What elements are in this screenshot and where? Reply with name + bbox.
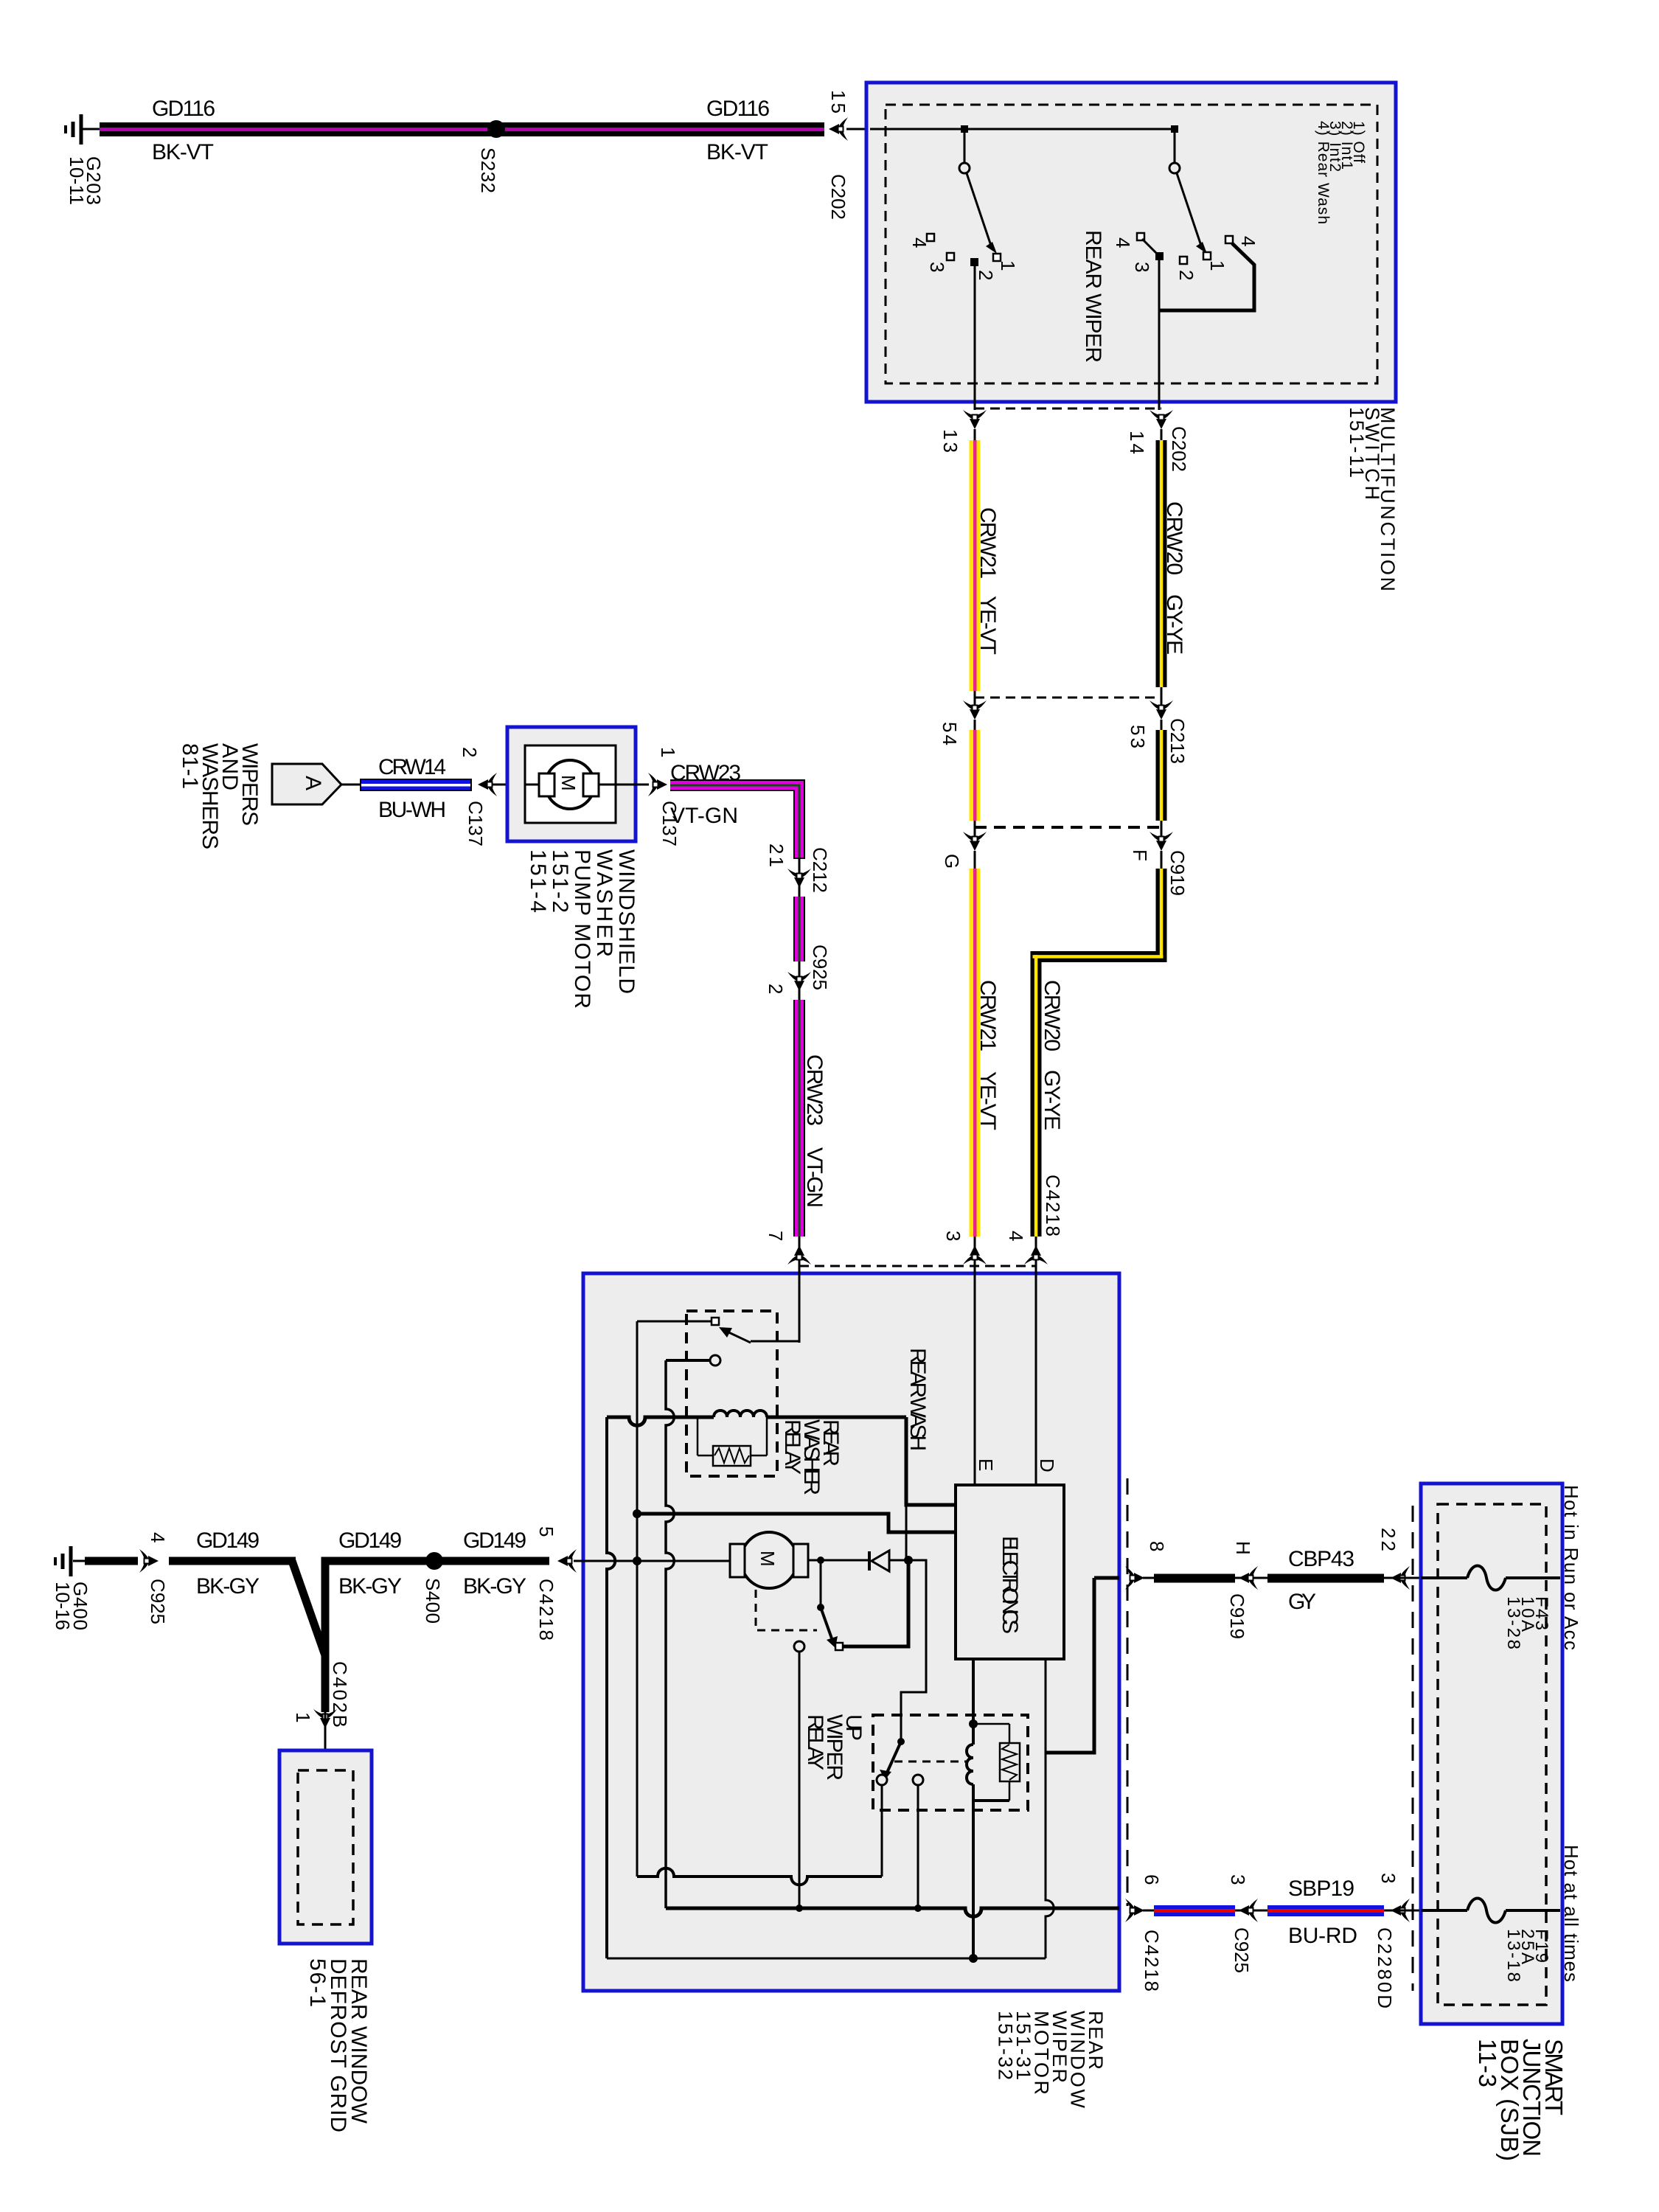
ground G400 <box>55 1546 87 1576</box>
connector C213 label <box>1166 718 1189 764</box>
svg-text:81-1: 81-1 <box>178 743 202 789</box>
svg-text:Hot in Run or Acc: Hot in Run or Acc <box>1560 1485 1582 1650</box>
connector C2280D label <box>1374 1927 1396 2008</box>
svg-text:4: 4 <box>1112 237 1134 248</box>
wire to wash switch pivot <box>1174 129 1176 163</box>
svg-text:1: 1 <box>997 260 1019 271</box>
wire SBP19 BU-RD seg2 <box>1267 1905 1384 1916</box>
wiper switch contact 3 <box>947 253 954 260</box>
connector arrow pin 13 <box>963 410 987 429</box>
svg-text:4: 4 <box>147 1532 169 1543</box>
connector C202 dashed bracket below switch <box>975 408 1161 410</box>
svg-text:CRW20: CRW20 <box>1040 980 1064 1051</box>
svg-text:C925: C925 <box>809 945 831 990</box>
connector arrow C4218 pin5 <box>557 1549 577 1573</box>
Hot in Run or Acc label <box>1560 1485 1582 1650</box>
svg-text:GD149: GD149 <box>196 1528 260 1553</box>
wire label YE-VT lower <box>975 1071 1000 1130</box>
connector C212: pin 21 label <box>765 844 787 867</box>
connector C925 label bottom <box>147 1579 169 1624</box>
UP relay contact right <box>913 1775 923 1785</box>
svg-text:C202: C202 <box>1168 426 1190 472</box>
wire GD116 BK-VT (ground to C202) <box>100 122 824 136</box>
wire from flag to CRW14 <box>341 784 361 786</box>
wash switch contact 1 <box>1203 252 1211 260</box>
svg-text:GY-YE: GY-YE <box>1162 594 1186 655</box>
node dot bus B start <box>633 1509 641 1518</box>
ELECTRONICS label <box>998 1536 1022 1634</box>
svg-text:10-16: 10-16 <box>52 1582 74 1630</box>
wiper switch contact 2 <box>970 258 978 266</box>
svg-text:BU-RD: BU-RD <box>1288 1924 1357 1948</box>
svg-text:C919: C919 <box>1226 1593 1248 1639</box>
svg-text:WASHER: WASHER <box>592 849 616 957</box>
connector C212 label <box>809 847 831 893</box>
connector C925 label <box>809 945 831 990</box>
connector C925 label right <box>1231 1927 1253 1973</box>
svg-text:CRW14: CRW14 <box>378 755 446 779</box>
svg-text:BU-WH: BU-WH <box>378 798 446 822</box>
pin 2 label C925 <box>765 984 787 994</box>
splice S232 <box>487 120 505 138</box>
pin 53 label <box>1127 725 1149 748</box>
node dot pivot feed <box>969 1719 978 1728</box>
svg-text:CRW21: CRW21 <box>975 980 1000 1051</box>
connector arrow C925 pin4 <box>139 1549 159 1573</box>
UP WIPER RELAY dashed box <box>873 1715 1028 1810</box>
pin 5 label <box>535 1526 557 1537</box>
wire ground rail pin5 to motor <box>583 1560 731 1562</box>
legend 1) Off 2) Int1 3) Int2 4) Rear Wash <box>1315 121 1367 224</box>
svg-text:C213: C213 <box>1166 718 1189 764</box>
svg-text:C919: C919 <box>1166 850 1189 896</box>
pin 3 label SJB <box>1377 1873 1399 1883</box>
wire label GY-YE <box>1162 594 1186 655</box>
WIPERS AND WASHERS 81-1 label <box>178 743 262 849</box>
connector arrow C202 pin15 <box>829 117 848 141</box>
wire label CRW20 <box>1162 501 1186 575</box>
MULTIFUNCTION SWITCH box <box>866 83 1396 402</box>
pin 7 label <box>765 1231 787 1241</box>
wire UP relay contact right to bus2 <box>917 1785 919 1908</box>
node G400 label <box>52 1582 91 1630</box>
connector arrow C925 <box>787 961 811 1000</box>
wire into pump box <box>493 784 525 786</box>
svg-text:GD149: GD149 <box>463 1528 526 1553</box>
wire label CRW21 lower <box>975 980 1000 1051</box>
mech link UP relay <box>894 1761 968 1763</box>
pin labels wash switch <box>1112 237 1134 248</box>
svg-text:D: D <box>1036 1458 1058 1472</box>
connector C4218 dashed bracket <box>799 1265 1036 1267</box>
wire jumper contact4R to output <box>1159 243 1254 310</box>
motor brush left <box>539 773 554 796</box>
connector arrow pin3 up <box>963 1237 987 1273</box>
pin E label <box>975 1458 997 1471</box>
rear wiper switch pivot <box>959 163 970 173</box>
svg-text:PUMP MOTOR: PUMP MOTOR <box>570 849 594 1009</box>
svg-text:SBP19: SBP19 <box>1288 1877 1354 1901</box>
wire CRW20 GY-YE seg3 with bend to x1405 <box>1031 851 1167 1237</box>
wire GD149 BK-GY seg1 with branch to C402B <box>169 1557 330 1713</box>
svg-text:C202: C202 <box>827 174 849 220</box>
connector C919 label right <box>1226 1593 1248 1639</box>
svg-text:2: 2 <box>765 984 787 994</box>
svg-text:C925: C925 <box>147 1579 169 1624</box>
svg-text:RELAY: RELAY <box>780 1419 804 1475</box>
wash switch contact 3 <box>1155 252 1164 260</box>
wire CBP43 GY <box>1267 1574 1384 1583</box>
wire contact to left bus <box>637 1321 712 1323</box>
park switch pivot line <box>820 1560 822 1607</box>
svg-text:BK-VT: BK-VT <box>706 140 768 164</box>
pin 14 label <box>1126 431 1148 454</box>
dashed connector line left of SJB <box>1412 1506 1414 1991</box>
pin 1 label <box>657 747 679 757</box>
REAR WINDOW DEFROST GRID box <box>279 1750 372 1944</box>
wire bottom rail <box>607 1958 1046 1960</box>
svg-text:4) Rear Wash: 4) Rear Wash <box>1315 121 1332 224</box>
wire coil feed vertical x823 <box>607 1417 615 1958</box>
park switch lever <box>821 1607 832 1638</box>
svg-text:56-1: 56-1 <box>305 1958 330 2007</box>
connector arrow pin F <box>1150 832 1173 851</box>
connector arrow pin4 up <box>1024 1237 1048 1273</box>
wire park UP contact down to bus2 <box>799 1652 801 1908</box>
wire label CRW21 <box>975 507 1000 579</box>
pin 15 label <box>827 90 849 114</box>
wire park RUN contact to diode junction <box>843 1560 908 1646</box>
node G203 label <box>66 156 105 205</box>
wire diode junction to UP relay pivot <box>901 1560 926 1740</box>
wire motor to diode junction <box>808 1559 869 1562</box>
svg-text:151-4: 151-4 <box>526 849 550 913</box>
pin G label <box>941 854 963 869</box>
svg-text:151-11: 151-11 <box>1346 407 1368 478</box>
wire left bus x864 (relay contact to ground rail) <box>636 1321 639 1877</box>
pin 1 label C402B <box>292 1712 314 1722</box>
dashed connector line right of motor box <box>1127 1478 1129 1906</box>
pin H label <box>1232 1541 1254 1555</box>
connector arrow SJB pin3 <box>1391 1899 1410 1922</box>
connector C4218 label bottom <box>1141 1930 1163 1992</box>
REAR WINDOW WIPER MOTOR 151-31 151-32 label <box>995 2011 1107 2109</box>
wire label YE-VT <box>975 596 1000 655</box>
REAR WASHER RELAY dashed box <box>686 1311 777 1476</box>
wiper motor M <box>741 1532 797 1588</box>
UP relay pivot <box>897 1738 905 1745</box>
svg-text:C4218: C4218 <box>1042 1175 1064 1237</box>
connector arrow C4218 pin8 <box>1125 1566 1144 1590</box>
svg-text:11-3: 11-3 <box>1474 2039 1501 2087</box>
wire from wash contact 3 down <box>1158 258 1161 410</box>
svg-text:ELECTRONICS: ELECTRONICS <box>998 1536 1022 1634</box>
svg-text:REAR WASH: REAR WASH <box>905 1348 930 1451</box>
wire bus A thick to electronics <box>906 1417 956 1505</box>
wire CRW14 BU-WH <box>360 779 472 791</box>
diode <box>869 1551 908 1571</box>
wire out of pump box <box>616 784 649 786</box>
svg-text:DEFROST GRID: DEFROST GRID <box>326 1958 350 2132</box>
svg-text:BK-GY: BK-GY <box>338 1574 402 1599</box>
svg-text:151-32: 151-32 <box>995 2011 1017 2080</box>
node junction at wiper switch <box>961 125 968 133</box>
washer relay lever <box>724 1330 751 1343</box>
washer relay coil <box>714 1411 767 1417</box>
svg-text:GD149: GD149 <box>338 1528 402 1553</box>
wash switch contact 2 <box>1180 257 1187 264</box>
UP relay coil <box>967 1745 973 1784</box>
svg-text:REAR WIPER: REAR WIPER <box>1081 230 1105 363</box>
connector arrow SJB pin22 <box>1391 1566 1410 1590</box>
connector C213 dashed bracket <box>975 697 1161 699</box>
pin 3 label <box>942 1231 964 1241</box>
svg-text:S400: S400 <box>422 1578 444 1624</box>
wire CRW20 GY-YE seg2 <box>1156 720 1167 821</box>
connector arrow pin 53 <box>1150 700 1173 720</box>
svg-text:BK-VT: BK-VT <box>152 140 214 164</box>
wire riser x1418 down to bottom rail <box>1046 1748 1054 1958</box>
REAR WIPER label <box>1081 230 1105 363</box>
fuse F19 label <box>1503 1929 1551 1982</box>
UP relay lever <box>887 1742 901 1773</box>
wire label VT-GN vertical <box>802 1147 827 1208</box>
connector arrow C919 pin H <box>1239 1566 1258 1590</box>
svg-text:6: 6 <box>1141 1874 1163 1885</box>
svg-text:10-11: 10-11 <box>66 156 88 205</box>
svg-text:WINDSHIELD: WINDSHIELD <box>614 849 639 994</box>
svg-text:GY-YE: GY-YE <box>1040 1070 1064 1130</box>
svg-text:BK-GY: BK-GY <box>196 1574 260 1599</box>
connector arrow pin 54 <box>963 700 987 720</box>
rear wiper switch lever <box>967 173 991 246</box>
svg-text:3: 3 <box>1377 1873 1399 1883</box>
wire CRW21 YE-VT seg2 <box>970 720 981 821</box>
pin D label <box>1036 1458 1058 1472</box>
svg-text:7: 7 <box>765 1231 787 1241</box>
svg-text:C137: C137 <box>465 801 487 846</box>
fuse F43 <box>1421 1566 1560 1590</box>
svg-text:YE-VT: YE-VT <box>975 596 1000 655</box>
pin 4 label <box>147 1532 169 1543</box>
wire electronics to pin8 riser <box>1045 1659 1047 1748</box>
pin 3 label mid <box>1227 1874 1249 1885</box>
UP relay coil bottom to rail <box>972 1784 975 1958</box>
svg-text:GY: GY <box>1288 1590 1316 1614</box>
connector arrow pin G <box>963 832 987 851</box>
washer relay contact (to ground bus) <box>712 1318 719 1325</box>
pin 8 label <box>1146 1541 1168 1551</box>
svg-text:CRW21: CRW21 <box>975 507 1000 579</box>
wire bus2 to pin 6 <box>666 1908 1119 1916</box>
rear wash switch pivot <box>1169 163 1180 173</box>
connector C137 label left <box>465 801 487 846</box>
wire UP relay contact left to bus1 <box>881 1785 883 1877</box>
wire label GY-YE lower <box>1040 1070 1064 1130</box>
node dot bottom rail coil <box>969 1954 978 1963</box>
svg-text:Hot at all times: Hot at all times <box>1560 1845 1582 1982</box>
svg-text:13-28: 13-28 <box>1503 1596 1523 1649</box>
svg-text:CBP43: CBP43 <box>1288 1547 1354 1571</box>
svg-text:C4218: C4218 <box>535 1579 557 1641</box>
ELECTRONICS box <box>956 1485 1064 1659</box>
svg-text:3: 3 <box>926 262 948 272</box>
svg-text:8: 8 <box>1146 1541 1168 1551</box>
wire across switch top <box>870 128 1175 131</box>
park switch contact UP (circle) <box>794 1641 804 1652</box>
wire C919 jumper (pin 8 to H) <box>1154 1574 1235 1583</box>
wire label CRW20 lower <box>1040 980 1064 1051</box>
wash switch contact 4 left <box>1137 233 1144 240</box>
wash switch link 4-3 <box>1142 239 1159 256</box>
wire CRW21 YE-VT seg1 <box>970 429 981 691</box>
node dot motor-park junction <box>817 1557 824 1564</box>
node junction at wash switch <box>1171 125 1178 133</box>
REAR WINDOW WIPER MOTOR box <box>583 1273 1119 1991</box>
svg-text:13-18: 13-18 <box>1503 1929 1523 1982</box>
connector arrow C137 pin1 <box>648 773 667 796</box>
REAR WINDOW DEFROST GRID 56-1 label <box>305 1958 371 2132</box>
coil line to corner <box>767 1416 906 1419</box>
washer relay resistor <box>698 1417 767 1466</box>
svg-text:F: F <box>1129 849 1151 861</box>
svg-text:C925: C925 <box>1231 1927 1253 1973</box>
UP relay resistor <box>973 1724 1020 1801</box>
wiper switch contact 1 <box>993 254 1001 261</box>
washer relay coil feed line <box>607 1417 714 1425</box>
svg-text:151-2: 151-2 <box>548 849 572 913</box>
svg-text:VT-GN: VT-GN <box>802 1147 827 1208</box>
wire pin8 L-path <box>1046 1578 1094 1753</box>
svg-text:4: 4 <box>1237 236 1259 246</box>
motor brush right <box>583 773 599 796</box>
wire electronics to UP relay coil <box>972 1659 975 1745</box>
fuse F43 label <box>1503 1596 1551 1649</box>
svg-text:2: 2 <box>1175 270 1197 280</box>
svg-text:CRW20: CRW20 <box>1162 501 1186 575</box>
connector arrow pin 14 <box>1150 410 1173 429</box>
pin 13 label <box>939 429 961 453</box>
node dot diode junction <box>904 1556 913 1565</box>
connector C919 dashed bracket <box>975 826 1161 829</box>
motor M circle <box>546 760 594 809</box>
UP WIPER RELAY label <box>803 1714 866 1781</box>
svg-text:RELAY: RELAY <box>803 1714 827 1770</box>
MULTIFUNCTION SWITCH 151-11 label <box>1346 407 1399 591</box>
connector C4218 label top <box>1042 1175 1064 1237</box>
wire from wiper contact 2 down <box>974 262 976 410</box>
svg-text:GD116: GD116 <box>152 97 215 121</box>
wire label CRW23 vertical <box>802 1054 827 1126</box>
connector arrow C4218 pin6 <box>1125 1899 1144 1922</box>
svg-text:M: M <box>557 775 580 791</box>
mechanical link motor to park switch <box>756 1590 817 1630</box>
svg-text:2: 2 <box>459 747 481 757</box>
ground G203 <box>66 114 101 145</box>
svg-text:1: 1 <box>292 1712 314 1722</box>
pin 2 label <box>459 747 481 757</box>
svg-text:CRW23: CRW23 <box>802 1054 827 1126</box>
fuse F19 <box>1421 1899 1560 1923</box>
svg-text:E: E <box>975 1458 997 1471</box>
wire into defrost box <box>324 1712 327 1771</box>
wiper switch contact 4 <box>927 234 934 241</box>
wash switch contact 4 right <box>1225 236 1233 243</box>
svg-text:YE-VT: YE-VT <box>975 1071 1000 1130</box>
connector C4218 label left <box>535 1579 557 1641</box>
wire SBP19 BU-RD seg1 <box>1154 1905 1235 1916</box>
WINDSHIELD WASHER PUMP MOTOR box <box>507 727 636 841</box>
connector arrow pin7 up <box>787 1237 811 1273</box>
pin 22 label <box>1377 1528 1399 1551</box>
svg-text:C212: C212 <box>809 847 831 893</box>
WINDSHIELD WASHER PUMP MOTOR 151-2 151-4 label <box>526 849 639 1009</box>
svg-text:S232: S232 <box>477 147 499 193</box>
node A flag <box>272 764 341 804</box>
wire ground stub <box>85 1557 138 1565</box>
connector arrow C212 <box>787 859 811 897</box>
pin 6 label <box>1141 1874 1163 1885</box>
wire pin4 to electronics D <box>1035 1263 1037 1485</box>
svg-text:CRW23: CRW23 <box>670 761 741 785</box>
svg-text:C402B: C402B <box>329 1661 351 1728</box>
wire into switch box <box>846 128 870 131</box>
svg-text:GD116: GD116 <box>706 97 770 121</box>
wire CRW21 YE-VT seg3 <box>970 851 981 1237</box>
svg-text:3: 3 <box>942 1231 964 1241</box>
node dot park contact on bus2 <box>796 1905 803 1912</box>
connector arrow C137 pin2 <box>478 773 497 796</box>
connector C402B label <box>329 1661 351 1728</box>
pin F label <box>1129 849 1151 861</box>
svg-text:4: 4 <box>1005 1231 1027 1241</box>
wire washer relay common contact <box>710 1355 720 1366</box>
svg-text:2: 2 <box>975 270 997 280</box>
svg-text:5: 5 <box>535 1526 557 1537</box>
svg-text:1: 1 <box>657 747 679 757</box>
splice S400 <box>425 1552 443 1570</box>
REAR WASHER RELAY label <box>780 1419 843 1495</box>
wire CRW23 VT-GN seg3 <box>793 1000 805 1237</box>
pin 4 label <box>1005 1231 1027 1241</box>
pin labels wiper switch <box>908 237 931 248</box>
UP relay contact left <box>877 1775 887 1785</box>
svg-text:H: H <box>1232 1541 1254 1555</box>
connector C202 label <box>827 174 849 220</box>
svg-text:BK-GY: BK-GY <box>463 1574 526 1599</box>
SMART JUNCTION BOX (SJB) 11-3 label <box>1474 2039 1568 2161</box>
wire CRW20 GY-YE seg1 <box>1156 429 1167 687</box>
connector C919 label <box>1166 850 1189 896</box>
connector C202 label lower <box>1168 426 1190 472</box>
park switch contact RUN (square) <box>835 1643 843 1650</box>
svg-text:4: 4 <box>908 237 931 248</box>
wire bus x902 down <box>666 1360 674 1908</box>
wire to wiper switch pivot <box>964 129 966 163</box>
svg-text:A: A <box>301 776 325 790</box>
connector C137 label right <box>658 801 681 846</box>
svg-text:C4218: C4218 <box>1141 1930 1163 1992</box>
wire bus1 to UP relay contact <box>637 1868 882 1885</box>
Hot at all times label <box>1560 1845 1582 1982</box>
svg-text:VT-GN: VT-GN <box>670 804 738 828</box>
connector arrow C925 pin3 <box>1239 1899 1258 1922</box>
svg-text:G: G <box>941 854 963 869</box>
wire pin7 into washer relay <box>799 1263 801 1343</box>
SMART JUNCTION BOX <box>1421 1484 1562 2024</box>
wire CRW23 VT-GN seg2 <box>793 897 805 961</box>
wire CRW23 VT-GN horizontal + corner <box>670 779 805 859</box>
